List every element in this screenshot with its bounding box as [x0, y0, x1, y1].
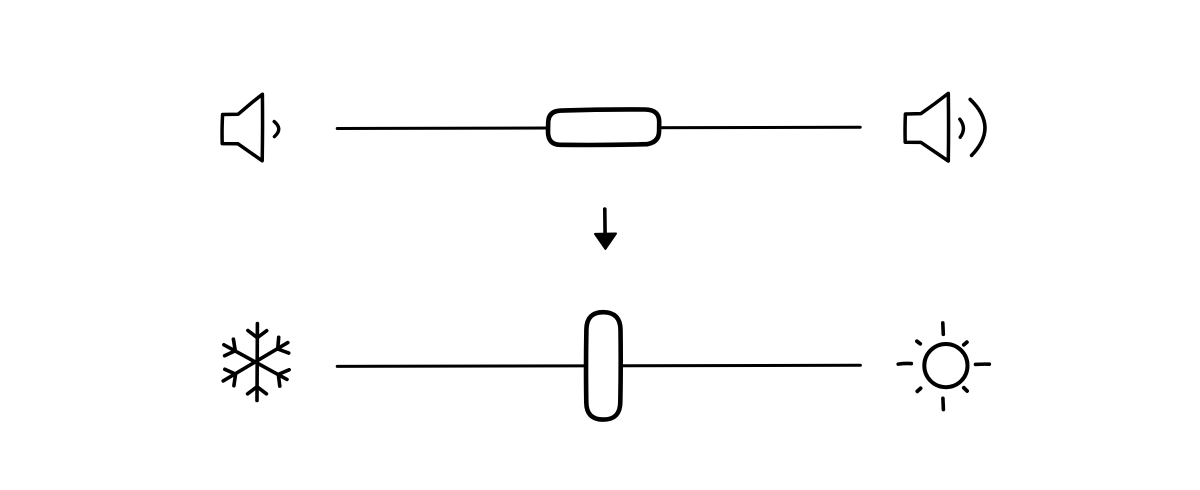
arrow down (between sliders) — [595, 209, 616, 249]
top slider track (wire) — [337, 127, 860, 128]
bottom slider track (wire) — [337, 365, 860, 366]
bottom slider handle (vertical pill) — [586, 312, 621, 419]
sun icon (hot, right of bottom slider) — [898, 323, 989, 410]
top slider handle (horizontal pill) — [548, 109, 659, 145]
speaker muted icon (volume low, left of top slider) — [222, 94, 279, 161]
snowflake icon (cold, left of bottom slider) — [223, 324, 289, 401]
speaker loud icon (right of top slider) — [905, 93, 985, 161]
